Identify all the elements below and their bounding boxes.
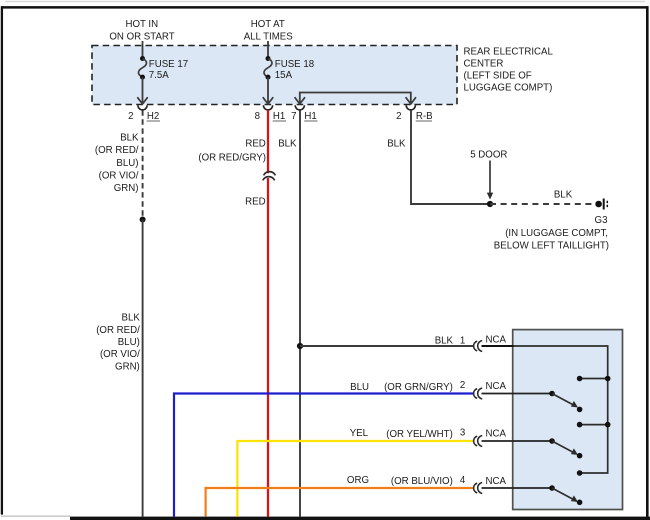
svg-text:BELOW LEFT TAILLIGHT): BELOW LEFT TAILLIGHT) (494, 241, 609, 252)
ground G3 (595, 199, 607, 210)
connector arcs row4 (474, 483, 483, 494)
wire HOT IN feed (142, 41, 144, 59)
svg-text:ALL TIMES: ALL TIMES (244, 31, 294, 42)
node splice on BLK (140, 217, 146, 223)
wire BLK dashed to ground (490, 203, 596, 205)
label pin 8 H1 (255, 111, 286, 122)
label REAR ELECTRICAL CENTER (464, 47, 554, 94)
wire common rail inside box (514, 346, 608, 473)
connector cup 7 H1 (295, 105, 304, 110)
svg-text:4: 4 (460, 475, 466, 486)
svg-text:2: 2 (128, 111, 133, 122)
wire stub row1 into box (482, 345, 514, 347)
svg-text:H1: H1 (273, 111, 285, 122)
svg-text:NCA: NCA (486, 381, 507, 392)
label FUSE 18 15A (275, 59, 314, 81)
svg-text:(OR RED/: (OR RED/ (96, 325, 140, 336)
contact pair 2 (577, 422, 611, 428)
svg-text:G3: G3 (595, 215, 608, 226)
svg-text:HOT AT: HOT AT (251, 19, 285, 30)
arrowhead exit 2 R-B (406, 97, 416, 104)
svg-text:CENTER: CENTER (464, 59, 504, 70)
arrow 5 DOOR pointer (487, 161, 493, 200)
wire stub row4 into box (482, 487, 553, 489)
svg-text:REAR ELECTRICAL: REAR ELECTRICAL (464, 47, 554, 58)
svg-text:(IN LUGGAGE COMPT,: (IN LUGGAGE COMPT, (505, 228, 608, 239)
wire RED lower to bottom (267, 178, 269, 517)
svg-text:7.5A: 7.5A (149, 70, 169, 81)
wire BLK dashed (H2 down) (142, 110, 144, 219)
wire fuse17 to exit (142, 77, 144, 103)
svg-text:2: 2 (396, 111, 401, 122)
svg-text:15A: 15A (275, 70, 293, 81)
wire BLK row1 to connector (300, 345, 474, 347)
svg-text:(OR RED/GRY): (OR RED/GRY) (198, 152, 266, 163)
arrowhead exit 7 H1 (295, 97, 305, 104)
connector cup H2 (138, 105, 147, 110)
svg-text:LUGGAGE COMPT): LUGGAGE COMPT) (464, 83, 553, 94)
switch arm C (549, 485, 582, 505)
svg-text:3: 3 (460, 428, 465, 439)
wire fuse18 to exit (267, 77, 269, 103)
svg-text:NCA: NCA (486, 476, 507, 487)
label G3 (494, 215, 609, 252)
page frame right border (646, 6, 649, 518)
svg-text:ON OR START: ON OR START (109, 31, 174, 42)
label FUSE 17 7.5A (149, 59, 188, 81)
svg-text:(OR VIO/: (OR VIO/ (100, 349, 140, 360)
svg-text:BLK: BLK (121, 313, 140, 324)
arrowhead exit 8 H1 (263, 97, 273, 104)
svg-text:BLK: BLK (278, 138, 297, 149)
svg-text:BLK: BLK (554, 189, 573, 200)
label pin 2 R-B (396, 111, 432, 122)
page frame top border (1, 6, 649, 9)
connector arcs row2 (474, 388, 483, 399)
svg-text:BLK: BLK (387, 138, 406, 149)
wire stub row2 into box (482, 393, 553, 395)
svg-text:BLU): BLU) (118, 337, 140, 348)
svg-text:1: 1 (460, 336, 465, 347)
page frame top hairline (5, 1, 645, 3)
svg-text:HOT IN: HOT IN (125, 19, 158, 30)
wire BLU (174, 394, 474, 517)
svg-text:RED: RED (245, 197, 265, 208)
page frame bottom gray segment (1, 515, 70, 517)
svg-text:(OR BLU/VIO): (OR BLU/VIO) (391, 476, 453, 487)
label YEL (OR YEL/WHT) 3 NCA (350, 428, 507, 441)
label RED / (OR RED/GRY) (198, 138, 266, 163)
label pin 7 H1 (291, 111, 317, 122)
rear electrical center box (92, 46, 457, 105)
svg-text:BLK: BLK (120, 133, 139, 144)
svg-text:(OR VIO/: (OR VIO/ (99, 170, 139, 181)
svg-text:8: 8 (255, 111, 260, 122)
label ORG (OR BLU/VIO) 4 NCA (347, 475, 507, 487)
node rail bottom (577, 470, 583, 476)
label pin 2 H2 (128, 111, 159, 122)
contact pair 1 (577, 376, 611, 382)
svg-text:RED: RED (245, 138, 265, 149)
label BLK (OR RED/BLU)(OR VIO/GRN) lower (96, 313, 140, 373)
wire ORG (206, 488, 474, 517)
svg-text:ORG: ORG (347, 475, 369, 486)
svg-text:(LEFT SIDE OF: (LEFT SIDE OF (464, 71, 532, 82)
svg-text:7: 7 (291, 111, 296, 122)
svg-text:BLK: BLK (435, 336, 454, 347)
label BLK (OR RED/BLU)(OR VIO/GRN) upper (95, 133, 139, 194)
connector cup 2 R-B (406, 105, 415, 110)
svg-text:H2: H2 (147, 111, 159, 122)
label HOT IN ON OR START (109, 19, 174, 43)
label HOT AT ALL TIMES (244, 19, 294, 43)
svg-text:(OR GRN/GRY): (OR GRN/GRY) (384, 382, 453, 393)
svg-text:2: 2 (460, 380, 465, 391)
label BLK 1 NCA (435, 335, 507, 347)
wire stub row3 into box (482, 440, 553, 442)
svg-text:BLU: BLU (350, 382, 369, 393)
switch arm A (549, 391, 582, 413)
node junction 5 door (487, 201, 493, 207)
svg-text:NCA: NCA (486, 335, 507, 346)
fuse F18 (264, 56, 272, 80)
splice pass-through symbol on RED (263, 172, 276, 181)
wire RED upper (267, 110, 269, 173)
switch assembly box (513, 330, 623, 510)
svg-text:FUSE 17: FUSE 17 (149, 59, 188, 70)
svg-text:5 DOOR: 5 DOOR (470, 149, 507, 160)
svg-text:FUSE 18: FUSE 18 (275, 59, 314, 70)
svg-text:YEL: YEL (350, 428, 369, 439)
svg-text:(OR RED/: (OR RED/ (95, 145, 139, 156)
fuse F17 (138, 56, 146, 80)
svg-text:NCA: NCA (486, 429, 507, 440)
svg-text:H1: H1 (304, 111, 316, 122)
svg-text:R-B: R-B (416, 111, 433, 122)
page frame left border (1, 6, 3, 514)
page frame bottom border (70, 517, 650, 520)
svg-text:BLU): BLU) (116, 158, 138, 169)
node junction BLK row1 (297, 343, 303, 349)
svg-text:GRN): GRN) (115, 361, 140, 372)
connector cup 8 H1 (263, 105, 272, 110)
wire HOT AT feed (267, 41, 269, 59)
connector arcs row3 (474, 436, 483, 447)
connector arcs row1 (474, 341, 483, 352)
wire internal bus (300, 93, 411, 104)
wire BLK (7 H1) down (299, 110, 301, 516)
label BLU (OR GRN/GRY) 2 NCA (350, 380, 506, 393)
wire BLK (R-B) down and right (411, 110, 490, 204)
svg-text:GRN): GRN) (114, 183, 139, 194)
wire YEL (237, 441, 473, 517)
svg-text:(OR YEL/WHT): (OR YEL/WHT) (386, 429, 453, 440)
switch arm B (549, 438, 582, 458)
wire BLK solid to bottom (142, 220, 144, 517)
arrowhead exit H2 (137, 97, 147, 104)
